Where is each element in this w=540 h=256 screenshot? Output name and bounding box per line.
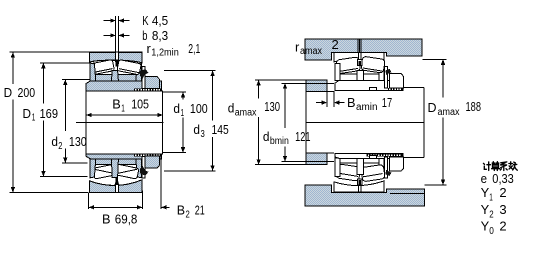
svg-text:2: 2 [186,210,191,221]
adapter sleeve [335,81,403,91]
CJK title 计算系数 (drawn strokes) [483,162,517,171]
inner ring left flange [90,63,96,81]
inner ring center guide flange [111,71,118,81]
svg-text:d: d [228,101,235,116]
oil hole inner bottom [358,179,362,185]
svg-text:3: 3 [499,202,506,217]
cage line roller 1 [93,69,113,73]
lock nut bottom [145,156,159,168]
shaft abutment collar bottom [306,153,327,165]
svg-text:1: 1 [181,108,185,119]
svg-text:amin: amin [356,102,378,113]
inner ring center guide flange bottom [111,159,118,178]
lock nut bottom [390,157,404,171]
sleeve keyway notch [370,88,377,91]
dimension B2 21 [160,157,162,209]
svg-text:D: D [4,85,13,100]
CJK glyph suan [492,162,500,171]
svg-text:121: 121 [295,129,310,144]
sleeve keyway notch bottom [370,155,377,158]
roller row 2 bottom [361,164,385,181]
dimension D1 169 [40,62,90,64]
inner ring base band [335,74,384,80]
oil hole slot [358,53,360,60]
svg-text:200: 200 [18,85,36,100]
shaft surface segments [327,91,334,93]
sleeve thread strip bottom [366,154,402,156]
outer ring bottom [334,181,384,192]
lock washer [142,67,145,89]
svg-text:1: 1 [489,193,493,204]
svg-text:188: 188 [466,99,482,114]
svg-text:Y: Y [481,202,490,217]
dimension d_amax 130 [255,79,306,81]
svg-text:130: 130 [69,134,87,149]
washer tab bottom [385,170,391,176]
left bearing bottom half (mirror) [86,154,161,192]
svg-text:17: 17 [382,95,392,110]
washer tab lines through housing [357,39,359,53]
svg-text:d: d [193,122,200,137]
svg-text:105: 105 [131,97,149,112]
oil hole slot bottom [358,185,360,192]
cage line roller 2 bottom [363,174,383,177]
housing bore line bottom right [390,193,424,195]
inner ring left flange bottom [335,158,340,177]
cage line roller 1 bottom [338,173,358,176]
cage line roller 1 bottom [95,169,115,173]
svg-text:1,2min: 1,2min [151,48,179,59]
svg-text:8,3: 8,3 [152,28,168,43]
svg-text:amax: amax [300,46,322,57]
svg-text:K: K [142,13,149,28]
svg-text:2,1: 2,1 [188,41,200,56]
dimension b 8,3 [104,34,116,36]
svg-text:B: B [112,97,121,112]
roller row 1 bottom [92,164,117,179]
right bearing top half [334,53,404,91]
dimension B1 105 [86,114,163,116]
roller row 1 [90,60,114,75]
cage line roller 1 [338,68,358,71]
sleeve thread strip [388,88,403,90]
inner ring right flange bottom [136,159,142,178]
dimension B_amin 17 [326,92,328,107]
sleeve thread strip bottom [134,154,161,156]
adapter sleeve bottom [335,154,403,159]
svg-text:e: e [481,171,487,186]
sleeve thread strip [134,88,161,90]
dimension d1 100 [163,91,186,93]
shaft abutment collar top [306,80,327,92]
dimension d_bmin 121 [282,82,334,84]
dimension K 4,5 [104,20,116,22]
washer tab [140,69,149,79]
svg-text:2: 2 [499,185,506,200]
washer tab [385,69,391,75]
outer ring [334,53,384,63]
roller row 1 [336,57,361,74]
svg-text:145: 145 [212,122,229,137]
housing band bottom [305,185,424,206]
oil hole slot bottom [116,185,118,192]
inner ring center guide flange [357,70,364,80]
svg-text:Y: Y [481,218,490,233]
svg-text:1: 1 [32,113,36,124]
svg-text:69,8: 69,8 [115,212,138,227]
outer ring [89,52,142,63]
lock nut [390,74,404,88]
svg-text:3: 3 [201,129,206,140]
oil hole inner blob bottom [115,178,120,185]
svg-text:2: 2 [489,209,494,220]
dimension d2 130 [62,79,91,81]
inner ring right flange [136,63,142,81]
roller row 2 [361,56,385,73]
housing band top [305,39,422,60]
adapter sleeve [86,81,161,91]
dimension D 200 [10,51,90,53]
right bearing bottom half (mirror) [334,154,404,193]
cage line roller 2 bottom [117,169,136,173]
inner ring base band bottom [90,159,141,165]
svg-text:B: B [177,203,185,218]
cage line roller 2 [363,68,383,71]
svg-text:100: 100 [190,101,208,116]
svg-text:d: d [263,129,270,144]
inner ring left flange bottom [90,159,96,178]
svg-text:d: d [173,101,180,116]
lock washer bottom [385,157,388,178]
CJK glyph xi [500,162,507,171]
svg-text:D: D [428,100,437,115]
lock washer bottom [142,156,145,178]
axis line right drawing [306,121,424,123]
inner ring base band [90,74,141,81]
oil hole inner blob [115,60,120,67]
svg-text:D: D [23,106,32,121]
washer tab bottom [140,166,149,176]
svg-text:0: 0 [489,226,494,237]
svg-text:d: d [51,134,58,149]
roller row 2 bottom [114,164,139,179]
svg-text:2: 2 [58,141,63,152]
dimension d3 145 [164,70,215,72]
roller row 1 bottom [336,164,361,181]
oil hole slot [116,53,118,60]
axis line left drawing [76,121,163,123]
svg-text:Y: Y [481,185,490,200]
inner ring right flange [379,65,384,80]
svg-text:bmin: bmin [270,136,289,147]
outer ring bottom [89,180,142,193]
CJK glyph ji [483,162,490,171]
svg-text:amax: amax [438,107,460,118]
svg-text:2: 2 [332,37,339,52]
svg-text:130: 130 [264,99,280,114]
lock nut [145,77,159,89]
svg-text:4,5: 4,5 [152,13,168,28]
roller row 2 [117,60,141,75]
cage line roller 2 [119,69,139,73]
inner ring left flange [335,64,340,81]
inner ring right flange bottom [379,158,384,176]
inner ring center guide flange bottom [357,158,364,175]
dimension B 69,8 [88,193,90,209]
lock washer [385,67,388,88]
svg-text:1: 1 [121,104,125,115]
oil hole inner [358,60,362,66]
svg-text:2: 2 [499,218,506,233]
K/b extension lines above bearing [115,16,117,52]
shaft (left drawing) [86,91,163,154]
adapter sleeve bottom [86,154,161,159]
svg-text:B: B [347,95,356,110]
svg-text:21: 21 [195,203,205,218]
svg-text:B: B [102,212,111,227]
dimension D_amax 188 [422,58,446,60]
CJK glyph shu [509,162,517,170]
svg-text:amax: amax [235,108,257,119]
svg-text:0,33: 0,33 [492,171,514,186]
svg-text:169: 169 [40,106,59,121]
inner ring base band bottom [335,158,384,163]
shaft end faces right drawing [305,80,307,165]
